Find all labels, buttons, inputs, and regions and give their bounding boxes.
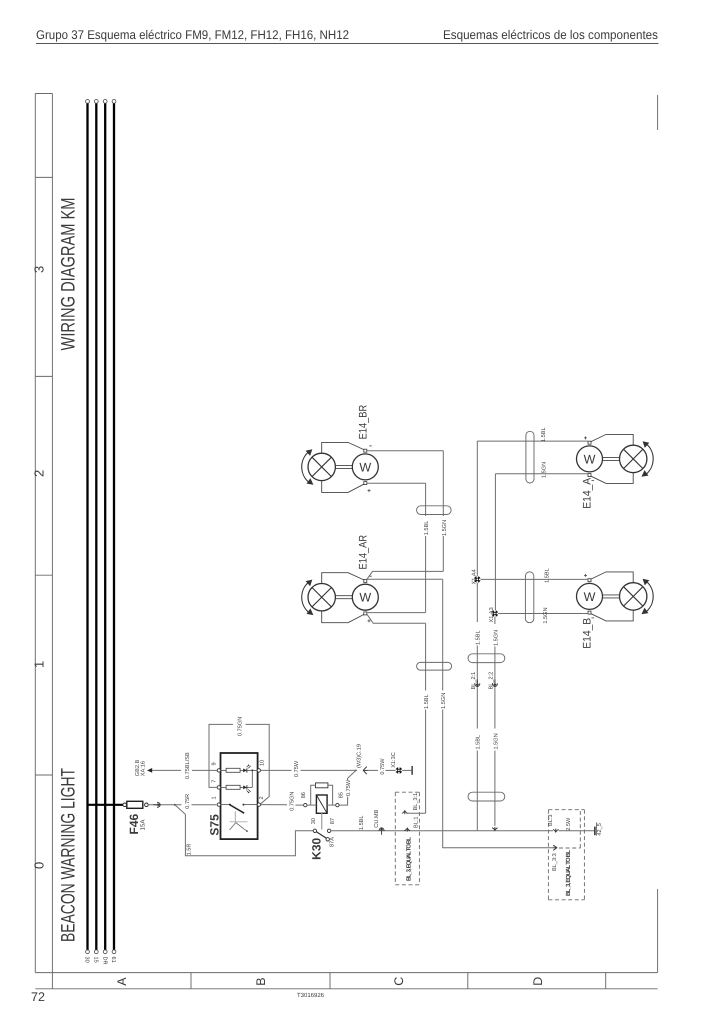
E14_B rotation arc [645,581,653,613]
riser GN right circuit [494,474,497,826]
K30 pin 87A [326,838,329,841]
svg-text:Esquemas eléctricos de los com: Esquemas eléctricos de los componentes [443,28,658,42]
svg-text:10: 10 [259,760,265,766]
svg-text:W: W [584,452,596,466]
left ruler column [35,94,52,973]
switch S75 box [221,753,258,839]
E14_BR rotation arc [302,452,310,484]
bus wire DR [104,103,106,950]
S75 lamp resistor row 9 [221,769,227,771]
svg-text:3: 3 [32,266,47,273]
svg-text:B: B [254,977,268,985]
svg-text:BL_3:1: BL_3:1 [413,793,419,811]
svg-text:DR: DR [101,957,107,965]
svg-text:BL_3:3: BL_3:3 [552,853,558,871]
wire E14_BR bottom to BL riser [367,482,426,484]
beacon lamp E14_A [577,434,654,508]
wire bus30 to fuse F46 [88,804,124,806]
S75 loop wire pin7 to pin2 (0.75GN) [209,724,269,804]
svg-text:0.75W: 0.75W [346,779,352,796]
svg-text:A: A [115,977,129,986]
K30 pin 86 [304,803,307,806]
svg-text:E14_B: E14_B [581,618,593,649]
svg-text:86: 86 [301,792,307,798]
E14_A terminals [588,441,591,444]
connector pill right upper [526,431,534,483]
S75 pin 1 [217,803,220,806]
E14_A enclosure [591,434,633,483]
riser 1.5BL lower (to BL_3:1) [425,623,427,813]
node X1.A3 [491,610,498,617]
E14_B enclosure [591,572,633,621]
bottom letters row [35,973,657,989]
svg-text:2: 2 [259,796,265,799]
svg-text:BEACON WARNING LIGHT: BEACON WARNING LIGHT [58,768,80,942]
bus wire 61 [113,103,115,950]
svg-text:0.75R: 0.75R [185,794,191,809]
svg-text:1.5BL: 1.5BL [541,427,547,442]
wires E14_AR top terminal [367,571,444,579]
svg-text:X1.A3: X1.A3 [489,607,495,622]
connector hook BL_2:1 [475,680,480,687]
K30 coil box [316,795,327,813]
E14_B motor W [577,583,603,609]
svg-text:D: D [531,977,545,986]
anchor hook on main wire [379,828,384,835]
wire arrow to S75 pin9 [152,769,217,771]
K30 switch blade [316,832,326,839]
svg-text:C: C [392,977,406,986]
svg-text:1.5GN: 1.5GN [494,630,500,646]
E14_B minus mark [592,617,595,619]
wire E14_BR top to GN riser [367,450,444,452]
svg-text:0.75GN: 0.75GN [289,792,295,811]
fuse F46 [123,803,127,807]
connector pill right lower [525,572,533,623]
svg-text:1.5GN: 1.5GN [442,520,448,536]
E14_BR motor W [352,454,378,480]
ref arrow BL_3:3 [553,845,558,850]
E14_AR terminals [364,580,367,583]
svg-text:2.5W: 2.5W [566,817,572,831]
S75 switch row 1 [221,804,230,806]
wire E14_A bottom (1.5GN) [495,473,588,475]
wire E14_A top (1.5BL) [477,440,588,442]
wire fuse to S75 pin1 [148,804,216,806]
S75 pin 9 [217,769,220,772]
ref arrow BL:3 down onto wire [553,829,558,832]
K30 coil connections [307,804,316,806]
svg-text:E14_BR: E14_BR [357,405,369,440]
connector hook BL_2:2 [492,680,497,687]
E14_A motor W [577,446,603,472]
E14_B shaft coupling [603,595,620,598]
beacon lamp E14_BR [302,405,379,493]
node X1.A4 [474,576,481,583]
E14_BR shaft coupling [335,465,352,468]
junction dot branch to K30 [355,770,357,772]
beacon lamp E14_B [577,572,654,649]
svg-text:K30: K30 [310,837,324,859]
svg-text:1.5GN: 1.5GN [494,733,500,749]
svg-text:Grupo 37 Esquema eléctrico FM9: Grupo 37 Esquema eléctrico FM9, FM12, FH… [36,28,349,42]
connector pill low right [468,792,505,801]
S75 switch mechanism [234,811,236,822]
E14_B terminals [588,579,591,582]
S75 switch blade [230,805,244,813]
svg-text:BL:1: BL:1 [413,816,419,828]
right border top segment [657,95,659,130]
E14_AR motor W [352,584,378,610]
connector pill upper left [417,506,452,515]
svg-text:BL_3, EQUAL TO BL: BL_3, EQUAL TO BL [405,837,412,881]
svg-text:1.5BL: 1.5BL [424,694,430,709]
svg-text:85: 85 [338,792,344,798]
svg-text:CU.MB: CU.MB [374,809,380,827]
S75 lamp resistor row 7 [221,786,227,788]
svg-text:W: W [359,591,371,605]
E14_AR enclosure [322,573,364,623]
svg-text:1: 1 [32,661,47,668]
riser 1.5GN lower (to BL_3:3) [442,579,444,820]
svg-text:0.75BL/SB: 0.75BL/SB [184,752,191,779]
svg-text:1.5BL: 1.5BL [476,735,482,750]
svg-text:0.75GN: 0.75GN [238,717,244,736]
svg-text:9: 9 [212,762,218,765]
svg-text:1.5BL: 1.5BL [424,521,430,536]
svg-text:E14_AR: E14_AR [357,535,369,570]
wire S75 pin10 to X1:3C [261,769,412,771]
svg-text:XA:16: XA:16 [140,761,146,776]
E14_A shaft coupling [603,457,620,460]
K30 pin 30 [313,829,316,832]
S75 LED row 9 [243,769,247,773]
svg-text:15A: 15A [140,819,147,831]
svg-text:BL_2:1: BL_2:1 [471,672,477,690]
wire S75 pin2 to K30 pin86 (0.75GN) [261,804,304,807]
svg-text:0: 0 [32,862,47,869]
E14_A lamp [620,445,647,472]
E14_BR enclosure [322,442,364,492]
svg-text:1: 1 [212,796,218,799]
riser BL right circuit [476,441,478,831]
right border bottom segment [657,889,659,973]
svg-text:0.75W: 0.75W [294,760,300,777]
svg-text:2: 2 [32,470,47,477]
svg-text:BL_2:2: BL_2:2 [489,672,495,690]
ground bar 42_5 [594,827,596,836]
wire X1.A3 to E14_B bottom (1.5GN) [495,613,588,615]
svg-text:BL_3, EQUAL TO BL: BL_3, EQUAL TO BL [565,850,572,896]
E14_AR rotation arc [302,582,310,614]
svg-text:42_5: 42_5 [597,823,603,835]
svg-text:X1:3C: X1:3C [391,752,397,768]
svg-text:1.5GN: 1.5GN [441,693,447,709]
svg-text:72: 72 [31,990,45,1004]
svg-text:T3016926: T3016926 [297,992,325,999]
svg-text:1.5GN: 1.5GN [543,607,549,623]
E14_AR minus mark [369,575,372,577]
connector pill lower left [417,662,452,670]
S75 pin 2 [257,803,260,806]
E14_AR lamp [308,584,335,611]
svg-text:(W3)C.19: (W3)C.19 [356,744,363,768]
E14_B lamp [620,583,647,610]
svg-text:BL:3: BL:3 [548,814,554,826]
connector hook on wire [153,802,160,807]
svg-text:WIRING DIAGRAM KM: WIRING DIAGRAM KM [58,198,80,351]
svg-text:1.5GN: 1.5GN [542,462,548,478]
riser 1.5GN upper (E14_BR to E14_AR) [442,451,444,572]
E14_BR terminals [364,449,367,452]
svg-text:87: 87 [330,818,336,824]
wire branch to K30 pin85 (0.75W) [339,770,356,805]
E14_A rotation arc [645,444,653,476]
svg-text:S75: S75 [207,814,221,836]
ref arrow BL:1 on main wire [405,828,410,831]
svg-text:1.5BL: 1.5BL [544,568,550,583]
svg-text:0.75W: 0.75W [380,758,386,775]
E14_A minus mark [592,479,595,481]
svg-text:1.5BL: 1.5BL [476,630,482,645]
wire to BL_3:1 arrow [406,812,425,814]
K30 resistor [316,783,328,788]
terminal bar X1:3C [411,766,413,775]
dashed box BL_3 left [395,792,419,885]
connector pill mid right [468,654,505,663]
dashed box BL_3 right [548,810,584,900]
ref arrow GN onto main wire [492,827,497,830]
svg-text:W: W [584,590,596,604]
svg-text:X1.A4: X1.A4 [471,569,477,584]
svg-text:7: 7 [212,780,218,783]
svg-text:1.5BL: 1.5BL [359,815,365,830]
E14_BR plus mark [368,489,371,492]
arrow GB2.B [147,768,152,773]
S75 internal link [251,770,253,787]
svg-text:30: 30 [311,818,317,824]
header underline [36,43,659,45]
svg-text:W: W [359,460,371,474]
S75 junction dot row9 [251,769,253,771]
K30 pin 85 [336,803,339,806]
E14_BR lamp [308,453,335,480]
wire 1.5R branch [175,805,313,856]
bus wire 15 [95,103,97,950]
S75 LED row 7 [243,786,247,790]
E14_B plus mark [584,574,587,577]
K30 pin 87 [327,829,330,832]
wire GN from left lamps to BL_3:3 [443,820,553,848]
ref arrow at (W3)C.19 [363,767,367,775]
connector star X1:3C [395,767,402,774]
K30 armature link [321,813,323,829]
riser 1.5BL upper [425,483,427,612]
bus wire 30 [86,103,88,950]
S75 pin 10 [257,769,260,772]
beacon lamp E14_AR [302,535,379,623]
E14_AR plus mark [368,619,371,622]
svg-text:61: 61 [110,957,116,963]
E14_AR shaft coupling [335,596,352,599]
svg-text:E14_A: E14_A [581,477,593,509]
E14_BR minus mark [369,445,372,447]
svg-text:87A: 87A [329,837,335,847]
S75 pin 7 [217,786,220,789]
E14_A plus mark [584,436,587,439]
svg-text:1.5R: 1.5R [186,844,192,856]
main wire K30 87 to right (1.5BL) [331,830,594,832]
svg-text:30: 30 [84,957,90,963]
svg-text:15: 15 [93,957,99,963]
ref arrow BL_3:1 (end of wire from lamps) [402,811,407,814]
wires E14_AR bottom terminal [367,613,426,624]
wire X1.A4 to E14_B top (1.5BL) [477,578,588,580]
junction to 1.5R branch [174,804,176,806]
